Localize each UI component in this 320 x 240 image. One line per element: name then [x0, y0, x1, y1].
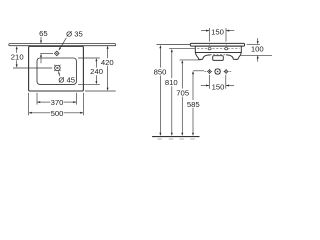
- svg-text:100: 100: [251, 44, 264, 53]
- floor hatching marks: [157, 138, 194, 140]
- basin body (front face): [195, 46, 241, 52]
- drain hole (circle with ticks, Ø45): [55, 65, 61, 71]
- rim top extension right (100 top ref): [247, 43, 260, 45]
- dimension 65 lower arrow: [40, 57, 42, 64]
- basin outer rectangle (plan view 500x420): [29, 46, 84, 91]
- svg-text:810: 810: [165, 78, 178, 87]
- extension lines down from diamonds (150 bottom): [208, 75, 210, 89]
- svg-text:850: 850: [154, 67, 167, 76]
- dimension 65 upper arrow: [40, 37, 42, 41]
- svg-text:Ø 45: Ø 45: [58, 76, 75, 85]
- wall centreline stubs: [204, 71, 231, 73]
- basin underside profile right: [226, 53, 241, 60]
- tap hole (diamond, Ø35): [55, 51, 60, 56]
- hidden dashed line behind siphon tab: [210, 54, 227, 56]
- dimension 210 lower part: [16, 60, 18, 64]
- underside extension right (100 bottom ref): [240, 54, 272, 56]
- basin bottom edge extension (420 bottom reference): [85, 90, 116, 92]
- dimension 240 line: [95, 61, 97, 67]
- extension line 810 (fixing hole level): [169, 48, 195, 50]
- svg-text:585: 585: [187, 100, 200, 109]
- svg-text:65: 65: [39, 29, 48, 38]
- siphon tab (rounded cover): [213, 56, 224, 61]
- wall line (plan view rear edge capsule): [9, 44, 116, 46]
- wall drain circle with ticks: [215, 69, 220, 74]
- svg-text:705: 705: [176, 89, 189, 98]
- leader line to Ø35 label: [60, 38, 66, 48]
- dimension 150 bottom arrows: [201, 85, 209, 87]
- dimension 370 line: [37, 101, 50, 103]
- svg-text:Ø 35: Ø 35: [66, 30, 83, 39]
- dimension 850 line: [159, 48, 161, 67]
- hidden marks on rim at fixing positions: [209, 44, 211, 46]
- leader line to Ø45 label: [58, 74, 61, 76]
- svg-text:150: 150: [211, 27, 224, 36]
- wall fixing right diamond: [224, 69, 229, 74]
- right fixing hole in body: [225, 48, 228, 50]
- rim bar: [190, 43, 244, 46]
- hidden dashed line in body: [197, 48, 239, 50]
- dimension 150 top arrows: [201, 30, 209, 32]
- svg-text:500: 500: [51, 109, 64, 118]
- dimension 500 line: [29, 112, 51, 114]
- inner basin bottom extension (240 reference): [78, 83, 100, 85]
- extension line 585 (wall drain level): [193, 70, 204, 72]
- extension lines below basin (370): [36, 93, 38, 105]
- inner basin top extension (240 reference): [78, 57, 100, 59]
- dimension 420 line: [107, 49, 109, 59]
- extension line 705 (basin underside level): [180, 59, 201, 61]
- dimension 705 line: [181, 63, 183, 88]
- svg-text:370: 370: [51, 98, 64, 107]
- dimension 100 arrows: [257, 38, 259, 41]
- left fixing hole in body: [208, 48, 211, 50]
- drain center extension line: [13, 67, 52, 69]
- svg-text:210: 210: [11, 53, 24, 62]
- svg-text:240: 240: [90, 67, 103, 76]
- dimension 210 upper part: [16, 49, 18, 53]
- basin underside profile left: [195, 53, 210, 60]
- inner basin rounded rectangle (370x240): [37, 58, 76, 84]
- extension lines up from fixing holes (150 top): [208, 28, 210, 42]
- floor line: [152, 136, 199, 138]
- dimension 585 line: [192, 74, 194, 100]
- svg-text:150: 150: [212, 82, 225, 91]
- extension line 850 (rim top level): [157, 44, 191, 46]
- extension lines below basin (500): [28, 93, 30, 116]
- dimension 810 line: [171, 52, 173, 78]
- tap hole center extension line: [40, 52, 53, 54]
- svg-text:420: 420: [101, 58, 114, 67]
- wall fixing left diamond: [207, 69, 212, 74]
